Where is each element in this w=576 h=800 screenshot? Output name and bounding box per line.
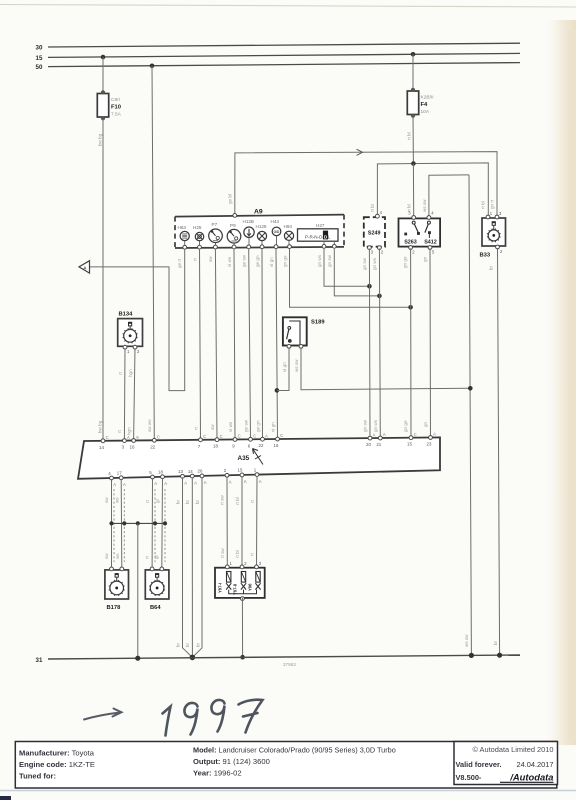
svg-text:S249: S249 [368,231,381,237]
svg-text:ws sw: ws sw [464,634,469,647]
B33 top bumps [486,215,490,219]
svg-text:sw: sw [208,256,213,262]
scan blue line bottom [0,790,576,792]
wire gn sw H27 to S249 pin2 wire [334,249,379,296]
svg-text:br: br [185,642,190,647]
svg-text:18: 18 [213,444,218,449]
svg-text:H94: H94 [284,224,293,229]
svg-text:vi gn: vi gn [282,362,287,372]
svg-text:/Autodata: /Autodata [509,772,553,783]
shield dash B64 pin1 [154,489,156,562]
triangle arrow A [79,261,90,273]
svg-text:C8/I: C8/I [111,97,120,103]
svg-text:br: br [185,499,190,504]
svg-text:A: A [433,432,436,437]
wire F4 junction to S263 pin [412,164,414,217]
valve Y96 [248,572,261,592]
valve block Y97 box [215,568,265,598]
svg-text:Year: 1996-02: Year: 1996-02 [193,768,242,777]
svg-text:rt sw: rt sw [220,548,225,558]
fuse F4 [407,88,418,118]
svg-text:ge sw: ge sw [243,419,248,432]
svg-text:Y96: Y96 [248,583,253,591]
wire vi ws cluster to A35 pin9 [234,249,235,440]
svg-text:20: 20 [366,442,371,447]
wire ge rt U-turn to arrow A [90,249,185,391]
svg-text:A: A [123,482,126,487]
svg-text:ws: ws [114,497,119,503]
shield ground link [112,522,166,524]
wire vi gn S189 to junction [277,347,289,390]
wire bus15 to F10 [102,57,104,92]
svg-text:br: br [175,642,180,647]
wire L1 cluster to B23 pin3 [235,152,497,216]
wire sw cluster to A35 pin18 [215,249,217,440]
junction L2 F4 [411,161,416,166]
svg-text:gn ge: gn ge [403,420,408,432]
svg-text:vi gn: vi gn [269,257,274,267]
handwritten 1997 [163,700,263,736]
svg-text:gn sw: gn sw [327,254,332,267]
svg-text:bw bg: bw bg [98,133,103,146]
wire rt cluster to A35 pin7 [200,249,201,440]
svg-text:gn sw: gn sw [362,257,367,270]
cluster bottom pins [183,244,336,249]
valve Y97-II [233,572,247,596]
svg-text:ws: ws [115,553,120,559]
lamp H94 [284,224,294,247]
valve Y97-I [218,572,232,594]
shield ground wire to bus31 [137,523,139,658]
junction bus15 x413 [411,52,416,57]
svg-text:gn ws: gn ws [317,254,322,267]
svg-text:C: C [203,434,206,439]
lamp H44 [271,219,281,247]
svg-text:rt: rt [249,552,254,556]
svg-text:Model: Landcruiser Colorado/Pr: Model: Landcruiser Colorado/Prado (90/95… [193,745,396,754]
svg-text:rt bl: rt bl [235,550,240,558]
svg-text:P7: P7 [212,222,218,227]
wire hgn B134 to A35 pin16 [134,348,135,440]
svg-text:C: C [280,433,283,438]
sensor B178 [105,570,129,599]
junction gn sw S249 [377,294,382,299]
lamp H25 [193,225,204,247]
svg-text:H12B: H12B [243,219,255,224]
svg-text:A: A [184,481,187,486]
bus 15 [48,53,520,57]
svg-text:C: C [106,435,109,440]
junction ws sw bus31 [469,653,474,658]
svg-text:A: A [383,432,386,437]
svg-text:gr: gr [154,554,159,559]
svg-text:rt sw: rt sw [220,495,225,505]
svg-text:C: C [157,434,160,439]
svg-text:B178: B178 [107,605,122,611]
svg-text:A: A [373,432,376,437]
wire gn sw S249 to A35 pin20 [368,249,371,440]
svg-text:rt: rt [250,499,255,503]
svg-text:B64: B64 [150,605,161,611]
wire ws A35 pin17 to B178 pin2 [120,479,123,568]
svg-text:50: 50 [36,64,43,71]
wire gn ws H27 to S249 pin3 wire [324,249,369,286]
svg-text:rt bl: rt bl [481,201,486,209]
svg-text:vi ws: vi ws [228,421,233,432]
svg-text:18: 18 [158,470,163,475]
svg-text:A: A [154,481,157,486]
junction gn ws S249 [367,284,372,289]
wire ws sw S189 to ground vertical [301,347,470,389]
wire L2 S249 to B23 pin1 [377,163,488,216]
svg-text:31: 31 [36,657,43,664]
svg-text:Valid forever.: Valid forever. [456,760,502,769]
svg-text:S412: S412 [424,239,437,245]
S249 pin4 bump [376,214,380,218]
svg-text:sw: sw [210,424,215,430]
svg-text:S263: S263 [404,239,417,245]
svg-text:A: A [265,433,268,438]
wire sw A35 pin4 to B178 pin1 [111,479,113,568]
svg-text:22: 22 [259,443,264,448]
svg-text:C: C [253,434,256,439]
svg-text:ge gn: ge gn [255,255,260,267]
switch S263 symbol [412,221,415,224]
svg-text:F10: F10 [111,105,121,111]
junction ws sw ground [468,386,473,391]
B134 bottom bumps [123,345,127,349]
lamp H63 [178,225,190,247]
B33 bottom bump [496,245,500,249]
svg-text:S189: S189 [311,319,325,325]
sensor B33 [482,218,506,246]
scan edge line top [0,5,576,8]
wire bus15 to F4 [412,54,414,89]
S249 bottom pins [368,246,372,250]
svg-text:gn: gn [423,256,428,262]
cluster A9 box [175,215,344,248]
svg-text:vi ws: vi ws [227,256,232,267]
wire rt A35 pin1 to Y96 [256,476,259,567]
svg-text:gn sw: gn sw [363,419,368,432]
svg-text:15: 15 [407,442,412,447]
svg-text:br: br [196,642,201,647]
svg-text:16: 16 [130,444,135,449]
svg-text:O/D: O/D [274,230,280,234]
shield dash B178 pin1 [113,489,115,562]
wire gn ge cluster to S263 wire [290,249,411,307]
svg-text:br: br [175,499,180,504]
wire L3 S412 to ground vertical [429,175,469,217]
svg-text:C: C [220,434,223,439]
footer table outer box [15,742,557,789]
svg-text:vi gn: vi gn [270,422,275,432]
junction bus15 x103 [101,55,106,60]
wire ge sw cluster to A35 pin6 [249,249,251,439]
Y97 top bumps [225,565,229,569]
wire br A35 pin26 to ground V [192,477,202,658]
svg-text:br: br [493,640,498,645]
svg-text:23: 23 [427,442,432,447]
switch box S263 S412 [399,218,441,246]
svg-text:br: br [489,265,494,270]
svg-text:ws sw: ws sw [294,359,299,372]
svg-text:21: 21 [376,442,381,447]
handwritten arrow [84,709,122,720]
svg-text:© Autodata Limited 2010: © Autodata Limited 2010 [472,745,553,754]
wire gn ws S249 to A35 pin21 [378,249,381,440]
wire F10 to A35 pin14 [102,119,104,440]
svg-text:hgn: hgn [126,427,131,435]
bus 31 [48,655,520,659]
switch S412 symbol [427,221,430,224]
svg-text:15: 15 [36,55,43,62]
svg-text:B33: B33 [480,253,491,259]
svg-text:A: A [259,479,262,484]
junction vi gn S189 [275,388,280,393]
svg-text:ge gn: ge gn [255,420,260,432]
footer table right box [454,742,558,785]
scan navy corner block bottom-left [0,796,11,800]
svg-text:37953: 37953 [283,662,296,667]
svg-text:H63: H63 [178,225,187,230]
svg-text:H44: H44 [271,219,280,224]
wire ge gn cluster to A35 pin22 [261,249,264,439]
wire gr A35 pin18 to B64 pin2 [161,478,164,568]
switch S249 [364,217,385,247]
svg-text:A: A [113,482,116,487]
junction Y97 bus31 [240,655,245,660]
footer autodata logo [500,772,554,783]
svg-text:22: 22 [150,444,155,449]
svg-text:A9: A9 [254,209,263,216]
svg-text:15: 15 [238,468,243,473]
svg-text:gn rt: gn rt [490,199,495,209]
Y97 internal common link [229,590,257,594]
cluster top pin [233,214,237,218]
ECU A35 box [78,437,440,478]
wire br A35 pin14 to ground V [191,477,193,657]
shield dash B64 pin2 [164,489,166,562]
svg-text:bw bg: bw bg [98,420,103,433]
svg-text:gr: gr [155,498,160,503]
wire rt A35 pin5 to B64 pin1 [151,478,153,568]
svg-text:A: A [164,481,167,486]
svg-text:A: A [204,480,207,485]
junction gn ge S263 [408,305,413,310]
svg-text:26: 26 [198,469,203,474]
svg-text:A: A [127,435,130,440]
S189 bottom bumps [287,345,291,349]
svg-text:rt bl: rt bl [370,204,375,212]
svg-text:ws sw: ws sw [422,199,427,212]
svg-text:gn ge: gn ge [282,255,287,267]
wire gn ge S263 to A35 pin15 [410,248,412,439]
A35 arrow symbol [253,449,264,465]
bus 50 [48,63,520,67]
lamp H129 [256,224,267,247]
S263 S412 top bumps [412,216,416,220]
S263 S412 bottom bumps [409,246,413,250]
svg-text:24.04.2017: 24.04.2017 [517,760,554,769]
svg-text:Engine code: 1KZ-TE: Engine code: 1KZ-TE [19,760,95,769]
svg-text:ge rt: ge rt [177,258,182,268]
display H27 [298,223,339,247]
arrow on L1 [357,149,363,155]
Y97 bottom bump [241,597,245,601]
svg-text:Output: 91 (124) 3600: Output: 91 (124) 3600 [193,757,270,766]
A35 bottom pins [108,467,262,487]
svg-text:14: 14 [99,445,104,450]
svg-text:V8.500-: V8.500- [456,773,482,782]
svg-text:7.5A: 7.5A [111,112,122,118]
junction shield bus31 [135,656,140,661]
svg-text:br: br [195,499,200,504]
svg-text:gn ge: gn ge [403,256,408,268]
svg-text:Manufacturer: Toyota: Manufacturer: Toyota [19,748,95,757]
svg-text:Y97-I: Y97-I [218,583,223,593]
svg-text:H25: H25 [193,225,202,230]
bus 30 [48,43,520,47]
svg-text:H27: H27 [316,223,325,228]
svg-text:P9: P9 [230,223,236,228]
wire vi gn cluster to A35 pin16 [276,249,278,439]
sensor B134 [118,319,143,347]
svg-text:sw: sw [104,553,109,559]
wire rt B134 to A35 pin3 [123,348,126,440]
svg-text:10A: 10A [421,109,430,115]
wire rt sw A35 pin2 to Y97-I [226,476,228,566]
svg-text:hgn: hgn [128,369,133,377]
wire br A35 pin13 to ground V [183,477,193,657]
svg-text:A: A [194,480,197,485]
svg-text:16: 16 [274,443,279,448]
junction br bus31 [497,653,502,658]
svg-text:gn ws: gn ws [373,419,378,432]
svg-text:A: A [229,479,232,484]
switch S189 [283,317,307,345]
shield dash B178 pin2 [123,489,125,562]
svg-text:C: C [414,432,417,437]
svg-text:sw ws: sw ws [147,419,152,432]
wire ws sw vertical to bus 31 [469,175,471,656]
svg-text:A35: A35 [238,455,250,462]
junction bus50 x152 [150,64,155,69]
svg-text:A: A [244,479,247,484]
svg-text:14: 14 [188,469,193,474]
svg-text:K2B/II: K2B/II [421,95,434,101]
wire rt bl A35 pin15 to Y97-II [241,476,243,567]
svg-text:Tuned for:: Tuned for: [19,771,56,780]
fuse F10 [97,90,108,120]
svg-text:rt bl: rt bl [407,132,412,140]
svg-text:H129: H129 [256,224,267,229]
svg-text:B134: B134 [119,312,134,318]
sensor B64 [145,570,169,599]
A35 top pins [99,432,436,450]
svg-text:rt bl: rt bl [235,497,240,505]
svg-text:gn: gn [423,421,428,427]
svg-text:ge bl: ge bl [228,194,233,204]
wire F4 to junction L2 [412,116,414,164]
svg-text:ge sw: ge sw [242,254,247,267]
svg-text:C: C [238,434,241,439]
junction ground V bus31 [190,655,196,661]
wire Y97 common to bus31 [241,598,243,657]
svg-text:sw: sw [104,497,109,503]
wire bus50 to A35 pin22 [152,66,154,440]
lamp H12B [243,219,255,247]
lamp P7 [209,222,223,247]
lamp P9 [227,223,241,247]
wire br B23 to bus31 [498,248,500,655]
wire gn S412 to A35 pin23 [429,248,432,439]
svg-text:17: 17 [117,471,122,476]
svg-text:13: 13 [178,469,183,474]
svg-text:F4: F4 [421,102,429,108]
B64 top bumps [150,567,154,571]
B178 top bumps [110,567,114,571]
svg-text:gn ws: gn ws [372,257,377,270]
svg-text:30: 30 [36,45,43,52]
